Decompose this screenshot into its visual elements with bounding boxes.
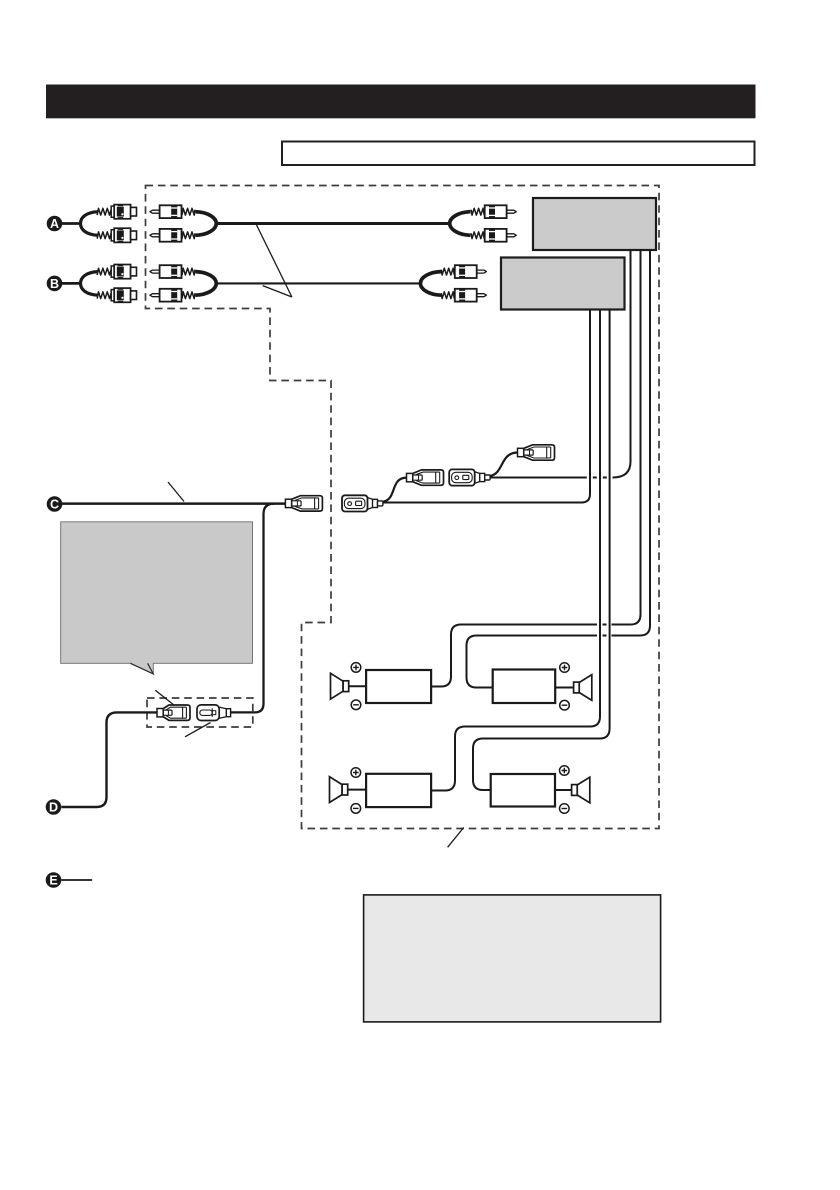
rear-left minus — [351, 804, 361, 814]
cable B male RCA bottom (supplied) — [150, 289, 195, 302]
lead C sleeve connector — [285, 496, 322, 511]
lead E wire — [61, 879, 92, 881]
cable B male RCA to unit top — [441, 265, 486, 278]
callout pointer from cable B — [263, 286, 292, 297]
front-right speaker wire — [555, 687, 573, 689]
cable A right C-joint — [450, 212, 471, 236]
cable A female RCA bottom — [97, 228, 136, 242]
wire from connector 1 up to connector 2 — [384, 478, 407, 502]
rear-left plus — [351, 768, 361, 778]
rear-right speaker — [572, 777, 590, 803]
D chain: callout pointer lower — [185, 723, 211, 737]
svg-text:E: E — [49, 874, 57, 888]
supplied-parts dashed outline — [146, 186, 660, 829]
cable B right C-joint — [420, 272, 441, 296]
svg-text:B: B — [50, 277, 59, 291]
cable B male RCA to unit bottom — [441, 289, 486, 302]
D chain sleeve connector — [157, 705, 190, 720]
head unit box B — [501, 258, 625, 310]
lead A3: box A to front-right speaker box — [467, 250, 651, 688]
D chain bullet connector — [197, 705, 231, 721]
lead A2: box A to front-left speaker box — [431, 250, 640, 687]
chain sleeve connector 2 — [407, 470, 444, 485]
D chain: callout pointer upper — [155, 690, 173, 704]
callout pointer to speaker dashed box — [448, 828, 464, 848]
lead B3: box B to rear-right speaker box — [473, 310, 610, 791]
note box — [282, 142, 755, 166]
front-right speaker — [574, 675, 592, 701]
front-left plus — [351, 663, 361, 673]
lead C wire — [62, 502, 287, 505]
cable B fork — [81, 272, 99, 296]
cable A label circle — [47, 216, 63, 232]
front-right plus — [560, 663, 570, 673]
rear-left speaker box — [366, 774, 431, 807]
lead D wire — [62, 712, 158, 807]
rear-right minus — [560, 804, 570, 814]
instruction bubble — [61, 522, 253, 674]
bottom note box — [364, 895, 661, 1022]
lead E label circle — [46, 872, 62, 888]
title bar — [46, 85, 756, 119]
cable B left C-joint — [196, 272, 217, 296]
callout pointer from cable A — [256, 225, 292, 298]
rear-right speaker wire — [555, 789, 571, 791]
front-right minus — [560, 700, 570, 710]
cable B female RCA top — [97, 265, 136, 279]
rear-left speaker — [330, 777, 348, 803]
svg-text:D: D — [49, 801, 58, 815]
small dashed box around D connectors — [147, 698, 253, 727]
lead B2: box B to rear-left speaker box — [431, 310, 600, 791]
cable B stem wire — [62, 282, 81, 285]
chain sleeve connector 4 — [518, 445, 555, 460]
cable A fork — [81, 212, 99, 236]
lead A1: box A to connector chain — [490, 250, 631, 478]
cable A left C-joint — [196, 212, 217, 236]
lead C label circle — [47, 496, 63, 512]
front-left speaker — [331, 673, 349, 699]
bubble tail outline — [130, 663, 153, 674]
cable B female RCA bottom — [97, 288, 136, 302]
chain flat connector 3 — [449, 469, 490, 485]
cable A main wire — [215, 222, 451, 225]
cable B male RCA top (supplied) — [150, 265, 195, 278]
rear-right speaker box — [491, 774, 555, 807]
lead C branch wire down to D chain — [231, 504, 274, 713]
front-right speaker box — [493, 670, 556, 704]
cable B label circle — [47, 276, 63, 292]
cable B main wire — [215, 282, 422, 284]
callout pointer to lead C — [168, 482, 184, 502]
front-left minus — [351, 700, 361, 710]
cable A male RCA bottom (supplied) — [150, 229, 195, 242]
head unit box A — [533, 198, 656, 250]
cable A male RCA top (supplied) — [150, 205, 195, 218]
cable A male RCA to unit bottom — [471, 229, 516, 242]
chain flat connector 1 — [342, 495, 383, 511]
rear-left speaker wire — [347, 789, 366, 791]
front-left speaker wire — [348, 685, 366, 687]
front-left speaker box — [366, 670, 431, 703]
cable A stem wire — [62, 222, 81, 225]
rear-right plus — [560, 766, 570, 776]
svg-text:C: C — [50, 498, 59, 512]
lead B1: box B to C-lead connector chain — [383, 310, 590, 503]
wire from connector 3 up to connector 4 — [490, 453, 518, 477]
lead D label circle — [46, 799, 62, 815]
cable A male RCA to unit top — [471, 205, 516, 218]
svg-text:A: A — [50, 217, 59, 231]
cable A female RCA top — [97, 205, 136, 219]
